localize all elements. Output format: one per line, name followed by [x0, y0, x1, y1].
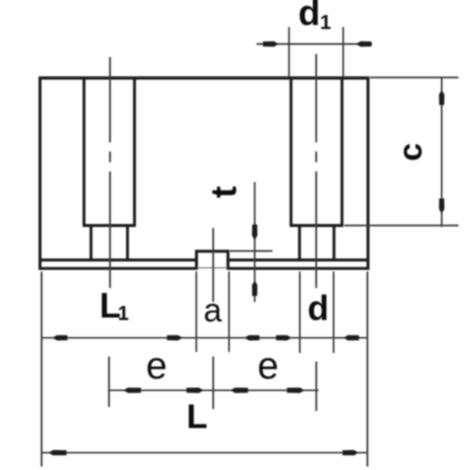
svg-text:d: d [308, 289, 329, 328]
e right extension line [315, 362, 317, 412]
svg-text:t: t [203, 186, 244, 198]
d extension line left [299, 272, 301, 354]
d1 arrow left [263, 41, 279, 46]
body top edge [39, 76, 370, 79]
flange faint line through boss [197, 267, 229, 269]
L arrow right [343, 450, 359, 455]
svg-text:e: e [146, 346, 167, 388]
left hole centerline [109, 57, 111, 288]
t arrow up [252, 281, 257, 297]
right hole counterbore bottom step [290, 224, 344, 227]
body right edge [367, 77, 370, 270]
e dimension line [108, 389, 319, 391]
left hole counterbore bottom step [83, 224, 136, 227]
right hole centerline [315, 54, 317, 288]
body bottom edge [39, 259, 370, 262]
e2 arrow right [287, 388, 305, 393]
bottom flange lower edge [39, 267, 370, 270]
e2 arrow left [231, 388, 249, 393]
L1 a d shared dimension line [42, 337, 368, 339]
right hole narrow bore left wall [298, 226, 301, 260]
a extension line left (boss left) [195, 272, 197, 353]
d1 dimension line [257, 43, 373, 45]
a arrow outside right [245, 335, 260, 340]
svg-text:e: e [258, 346, 279, 388]
right hole counterbore right wall [341, 79, 344, 225]
d arrow outside left [276, 335, 292, 340]
e left extension line [108, 357, 110, 408]
c arrow up [439, 90, 444, 105]
L right extension line [366, 272, 368, 467]
d1 arrow right [356, 41, 372, 46]
L arrow left [49, 450, 67, 455]
left hole narrow bore right wall [126, 226, 129, 260]
center boss outline [197, 251, 229, 269]
left hole narrow bore left wall [90, 226, 93, 260]
svg-text:L: L [187, 398, 208, 436]
d1 extension line left [288, 27, 290, 77]
c top extension line [370, 77, 459, 79]
right hole narrow bore right wall [333, 226, 336, 260]
e1 arrow right [187, 388, 204, 393]
e1 arrow left [124, 388, 142, 393]
svg-text:1: 1 [118, 303, 129, 325]
svg-text:c: c [392, 143, 429, 161]
t arrow down [252, 225, 257, 241]
c arrow down [439, 199, 444, 214]
c dimension line [441, 77, 443, 227]
d extension line right [333, 272, 335, 354]
c bottom extension line [344, 225, 459, 227]
svg-text:d: d [298, 0, 320, 33]
L1 arrow left [53, 335, 68, 340]
d1 extension line right [342, 27, 344, 77]
svg-text:1: 1 [320, 12, 331, 34]
left hole counterbore left wall [83, 79, 86, 225]
L1/a arrow right [167, 335, 183, 340]
part centerline extension [212, 228, 214, 409]
right hole counterbore left wall [290, 79, 293, 225]
a extension line right (boss right) [228, 272, 230, 353]
t dimension line [254, 182, 256, 302]
body left edge [39, 77, 42, 270]
boss top extension line [230, 250, 273, 252]
L left extension line [41, 272, 43, 467]
d arrow outside right [344, 335, 360, 340]
L dimension line [42, 452, 368, 454]
svg-text:a: a [204, 292, 223, 329]
left hole counterbore right wall [133, 79, 136, 225]
